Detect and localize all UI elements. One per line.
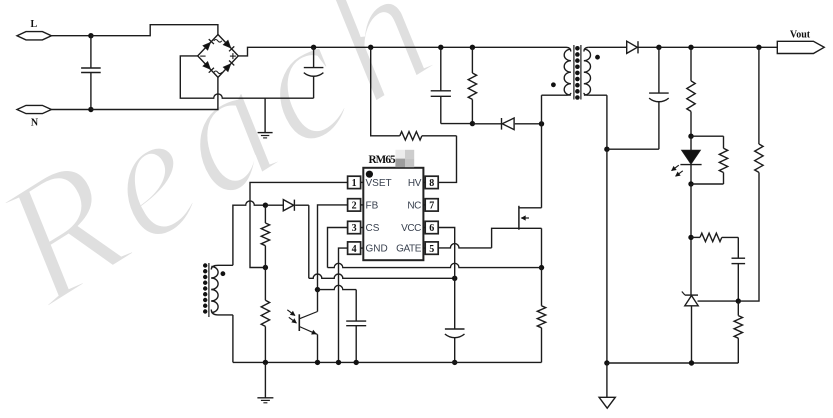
junction gnd opto: [315, 360, 320, 365]
wire diode to VCC riser: [295, 204, 309, 206]
junction LED top: [688, 134, 693, 139]
wire secondary return vertical: [606, 149, 608, 363]
wire FB to opto collector: [317, 290, 319, 312]
wire main DC bus: [314, 46, 567, 48]
wire pin4 GND: [339, 248, 349, 362]
svg-text:VCC: VCC: [401, 223, 421, 234]
transistor Q2 optocoupler: [299, 312, 317, 363]
wire LED bottom to TL431: [690, 184, 692, 295]
wire anode to diode: [265, 204, 283, 206]
wire divider mid to R6: [738, 172, 759, 301]
junction drain node: [539, 121, 544, 126]
opto light arrows: [287, 310, 296, 323]
node Vout connector: [777, 41, 824, 53]
junction snubber cap: [438, 45, 443, 50]
wire L to bridge top: [91, 25, 218, 36]
node N input connector: [17, 105, 51, 113]
wire source to sense: [541, 228, 543, 267]
ground GND3 earth: [257, 362, 273, 402]
junction FB node: [315, 287, 320, 292]
wire clamp diode to drain node: [515, 123, 542, 125]
svg-text:5: 5: [429, 244, 434, 255]
transformer T1 aux winding core: [203, 263, 209, 317]
svg-text:GND: GND: [366, 244, 388, 255]
resistor R1 HV: [400, 132, 422, 140]
wire L to junction: [51, 35, 91, 37]
label N: [31, 118, 39, 129]
junction VCC cap: [452, 360, 457, 365]
wire primary ground bus: [233, 361, 542, 363]
TL431 U2: [682, 292, 698, 364]
junction gnd pin4: [336, 360, 341, 365]
junction X-cap top: [88, 33, 93, 38]
resistor R4 LED parallel: [691, 136, 728, 184]
transistor Q1 MOSFET: [519, 206, 542, 230]
wire B VCC rail: [309, 274, 455, 278]
svg-text:CS: CS: [366, 223, 380, 234]
svg-text:FB: FB: [366, 201, 379, 212]
svg-text:Vout: Vout: [790, 30, 811, 41]
wire A current sense: [328, 263, 542, 267]
resistor R2 snubber: [468, 47, 476, 123]
junction VSET node: [263, 265, 268, 270]
wire N to bridge bottom: [91, 77, 218, 109]
resistor R6 divider top: [755, 47, 763, 172]
capacitor C7 comp: [732, 237, 746, 301]
resistor R9 VSET lower: [261, 268, 269, 363]
resistor R5 comp: [691, 233, 738, 241]
ground GND2 secondary: [599, 363, 615, 408]
wire N to junction: [51, 109, 91, 111]
diode D2 output rectifier: [620, 41, 659, 53]
wire snubber to clamp diode: [472, 123, 501, 125]
wire TL431 ref: [698, 300, 739, 302]
junction X-cap bottom: [88, 107, 93, 112]
wire bridge plus to bus: [238, 47, 313, 56]
label - left: [200, 55, 205, 57]
junction TL431 anode: [689, 360, 694, 365]
resistor R10 current sense: [537, 268, 545, 363]
junction R3 top: [688, 45, 693, 50]
junction bulk cap: [311, 45, 316, 50]
junction divider top: [756, 45, 761, 50]
resistor R8 VSET upper: [261, 205, 269, 267]
svg-text:L: L: [31, 19, 38, 30]
transformer T1 aux winding: [211, 265, 233, 315]
LED light arrows: [672, 165, 683, 176]
junction secondary return: [604, 147, 609, 152]
junction snubber bottom: [470, 121, 475, 126]
wire secondary return top: [606, 95, 608, 149]
label RM65: [369, 154, 397, 166]
junction divider mid: [736, 298, 741, 303]
wire bridge minus to gnd rail: [180, 56, 313, 98]
wire pin2 FB: [318, 205, 349, 290]
svg-text:HV: HV: [408, 178, 422, 189]
censor mosaic: [395, 150, 414, 167]
svg-text:NC: NC: [407, 201, 421, 212]
wire pin6 VCC: [438, 228, 455, 330]
polarity dot secondary: [595, 55, 600, 60]
wire pin5 GATE: [438, 228, 519, 248]
transformer T1 primary winding: [542, 47, 571, 95]
capacitor C2 bulk: [304, 47, 324, 98]
junction HV feed: [368, 45, 373, 50]
resistor R3 LED feed: [687, 47, 695, 136]
wire aux bottom to bus: [232, 315, 234, 363]
wire primary bottom to drain: [541, 95, 543, 208]
svg-text:6: 6: [429, 223, 434, 234]
junction output cap: [656, 45, 661, 50]
svg-text:2: 2: [352, 201, 357, 212]
junction comp node: [688, 235, 693, 240]
label L: [31, 19, 38, 30]
svg-text:8: 8: [429, 178, 434, 189]
wire VCC riser down: [308, 205, 310, 278]
diode D4 VCC rectifier: [283, 200, 294, 211]
resistor R7 divider bottom: [734, 301, 742, 363]
svg-text:4: 4: [352, 244, 357, 255]
junction aux diode anode: [263, 203, 268, 208]
wire aux top: [233, 201, 266, 265]
junction gnd C6: [354, 360, 359, 365]
capacitor C1 X-cap: [81, 36, 101, 110]
capacitor C5 output: [649, 47, 669, 149]
transformer T1 secondary winding: [584, 47, 620, 95]
label ~ top: [214, 40, 222, 43]
pin labels: [366, 178, 422, 255]
junction secondary gnd: [604, 360, 609, 365]
bridge rectifier BR1: [198, 35, 239, 78]
LED D3 opto: [680, 136, 701, 184]
svg-text:VSET: VSET: [366, 178, 392, 189]
wire cap bottom to return: [607, 148, 659, 150]
wire pin1 VSET: [250, 182, 348, 267]
label + right: [230, 53, 236, 59]
label Vout: [790, 30, 811, 41]
junction source: [539, 265, 544, 270]
wire pin3 CS: [328, 228, 349, 268]
wire output line: [659, 46, 777, 48]
svg-text:GATE: GATE: [396, 244, 422, 255]
polarity dot primary: [551, 82, 556, 87]
junction LED bottom: [688, 181, 693, 186]
svg-text:7: 7: [429, 201, 434, 212]
svg-text:N: N: [31, 118, 39, 129]
capacitor C3 snubber: [431, 47, 473, 123]
capacitor C6 FB: [346, 321, 366, 362]
label ~ bottom: [214, 71, 222, 74]
watermark: [0, 0, 471, 341]
junction gnd R9: [263, 360, 268, 365]
pin boxes 1-8: [348, 176, 439, 255]
capacitor C4 VCC: [445, 329, 465, 362]
wire secondary bottom: [607, 362, 738, 364]
svg-text:RM65: RM65: [369, 154, 397, 166]
svg-text:1: 1: [352, 178, 357, 189]
diode D1 clamp: [502, 118, 515, 130]
junction VCC rail: [452, 276, 457, 281]
wire HV feed: [371, 47, 457, 182]
transformer T1 core: [574, 45, 581, 100]
op-amp U1 RM65 controller body: [363, 168, 423, 260]
ground GND1 earth: [258, 98, 273, 138]
wire C FB filter: [318, 285, 357, 321]
pin 1 dot: [366, 171, 373, 178]
polarity dot aux: [221, 271, 226, 276]
junction snubber resistor: [470, 45, 475, 50]
node L input connector: [17, 32, 51, 40]
svg-text:3: 3: [352, 223, 357, 234]
